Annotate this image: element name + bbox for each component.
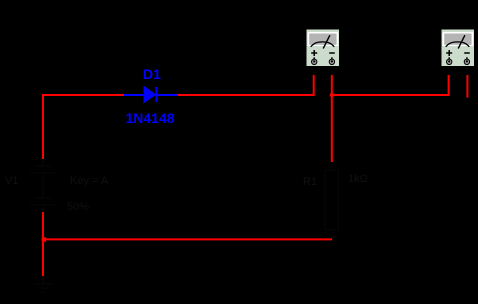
wire: battery bottom pin to bottom junction <box>42 212 44 241</box>
ground (black, invisible) <box>33 276 53 292</box>
svg-text:V1: V1 <box>5 175 18 187</box>
wire: bottom junction down to ground <box>42 240 44 276</box>
wire: left vertical from top corner down to battery V1 top pin <box>42 94 44 159</box>
svg-text:R1: R1 <box>303 176 317 188</box>
resistor R1 (black, invisible) <box>325 162 339 238</box>
wire: meter XMM2 minus terminal stub <box>466 75 468 98</box>
svg-text:1kΩ: 1kΩ <box>348 173 368 185</box>
battery V1 (black, invisible on black bg) <box>30 159 56 212</box>
diode D1 <box>124 86 178 104</box>
wire: bottom horizontal from junction to resistor R1 bottom pin <box>43 238 332 240</box>
svg-text:1N4148: 1N4148 <box>126 110 175 126</box>
svg-text:D1: D1 <box>143 66 161 82</box>
wire: meter XMM1 minus terminal stub down to junction <box>331 75 333 95</box>
meter XMM2 <box>441 29 475 67</box>
svg-text:Key = A: Key = A <box>70 175 109 187</box>
wire: junction to meter XMM2 plus terminal <box>332 75 449 95</box>
wire: junction down to resistor R1 top pin <box>331 95 333 162</box>
wire: diode cathode to meter XMM1 plus terminal <box>178 75 314 95</box>
node bottom junction <box>42 237 47 242</box>
svg-text:50%: 50% <box>67 201 89 213</box>
meter XMM1 <box>306 29 340 67</box>
node junction at meter1 minus / R1 top / to meter2 <box>330 93 334 97</box>
wire: top horizontal from left corner to diode anode <box>42 94 124 96</box>
